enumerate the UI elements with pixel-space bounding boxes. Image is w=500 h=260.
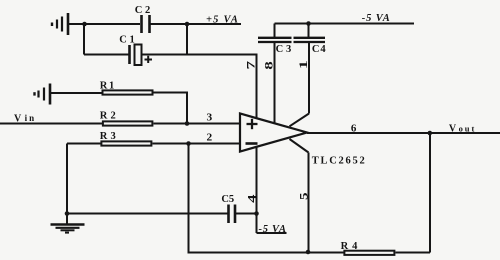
- svg-text:6: 6: [351, 123, 357, 135]
- svg-text:3: 3: [207, 113, 213, 124]
- svg-text:TLC2652: TLC2652: [312, 155, 365, 166]
- svg-text:4: 4: [244, 195, 258, 203]
- svg-text:out: out: [459, 123, 475, 133]
- svg-text:R1: R1: [100, 81, 114, 92]
- svg-text:C4: C4: [312, 44, 326, 55]
- svg-text:+5 VA: +5 VA: [206, 14, 238, 25]
- svg-text:V: V: [14, 113, 22, 124]
- svg-text:-5 VA: -5 VA: [259, 224, 287, 235]
- svg-text:7: 7: [244, 61, 258, 70]
- svg-text:in: in: [25, 113, 35, 123]
- svg-text:8: 8: [261, 61, 275, 70]
- svg-text:5: 5: [296, 193, 310, 201]
- svg-text:-5 VA: -5 VA: [362, 13, 390, 24]
- svg-text:V: V: [449, 124, 457, 135]
- svg-text:1: 1: [296, 60, 310, 69]
- svg-text:C5: C5: [221, 194, 234, 205]
- svg-text:2: 2: [207, 132, 213, 143]
